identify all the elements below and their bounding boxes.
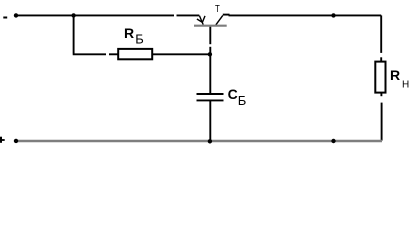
svg-text:R: R [390, 67, 400, 83]
svg-text:Б: Б [135, 32, 144, 47]
svg-text:C: C [228, 86, 238, 102]
svg-text:R: R [124, 25, 134, 41]
svg-text:Н: Н [402, 80, 409, 91]
svg-text:Б: Б [238, 93, 247, 108]
svg-text:T: T [215, 3, 220, 15]
